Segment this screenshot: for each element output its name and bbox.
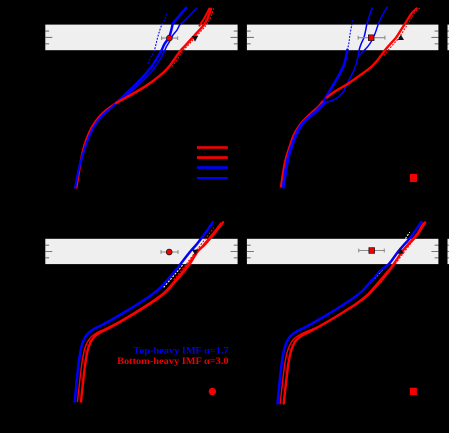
svg-text:Top-heavy IMF α=1.7: Top-heavy IMF α=1.7	[133, 346, 229, 356]
svg-text:Bottom-heavy IMF α=3.0: Bottom-heavy IMF α=3.0	[117, 357, 229, 367]
